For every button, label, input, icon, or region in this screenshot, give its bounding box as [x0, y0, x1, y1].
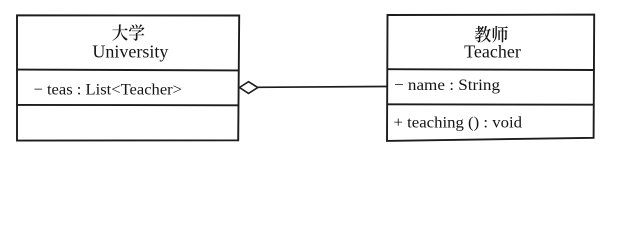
svg-text:− name : String: − name : String [394, 77, 500, 94]
svg-text:+ teaching () : void: + teaching () : void [394, 114, 523, 131]
svg-text:Teacher: Teacher [464, 42, 521, 62]
svg-text:− teas : List<Teacher>: − teas : List<Teacher> [34, 81, 183, 98]
svg-text:University: University [92, 42, 168, 62]
